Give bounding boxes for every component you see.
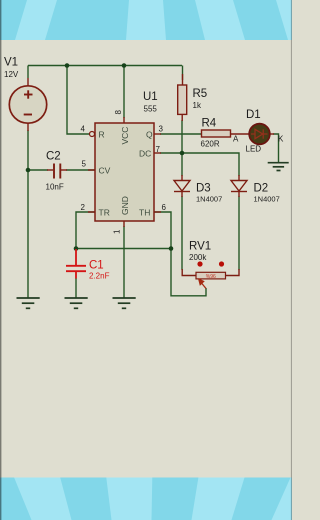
pin stub TR(2) <box>88 211 95 213</box>
svg-text:U1: U1 <box>143 91 158 103</box>
svg-text:2.2nF: 2.2nF <box>89 272 110 281</box>
pin stub C2 left <box>47 169 53 171</box>
wire TR(2) pin down <box>76 212 95 249</box>
wire TR-TH row <box>76 248 171 250</box>
voltage source V1 <box>9 86 46 123</box>
svg-text:D1: D1 <box>246 109 261 121</box>
maroon pin stubs <box>28 74 274 276</box>
wire Q(3) to R4 <box>160 133 202 135</box>
pin stub GND(1) <box>123 221 125 227</box>
svg-text:8: 8 <box>114 110 123 115</box>
svg-text:Q: Q <box>146 130 153 140</box>
svg-text:1N4007: 1N4007 <box>196 195 222 204</box>
pin stub LED cathode <box>270 133 274 135</box>
svg-text:1: 1 <box>113 229 122 234</box>
wire rail to VCC(8) pin <box>123 66 125 119</box>
ground U1 GND pin <box>113 298 136 308</box>
junction dots <box>26 63 185 251</box>
svg-text:1k: 1k <box>193 101 202 110</box>
potentiometer RV1 body <box>196 272 226 280</box>
svg-text:555: 555 <box>144 105 158 114</box>
svg-text:TR: TR <box>99 208 110 218</box>
node DC-D3 junction <box>180 151 185 156</box>
node rail-R4pin junction <box>65 63 70 68</box>
svg-text:12V: 12V <box>4 70 19 79</box>
wire rail to R(4) pin <box>67 66 90 135</box>
wire C2 left to V1 rail <box>28 169 48 171</box>
svg-text:D3: D3 <box>196 183 211 195</box>
ground C1 <box>65 298 88 308</box>
wire TH(6) pin down <box>154 212 171 249</box>
capacitor C2 <box>54 164 60 179</box>
op-amp U1 555 body <box>90 123 155 221</box>
wire D3 bottom to pot left <box>181 196 183 270</box>
wire GND(1) pin to ground <box>123 226 125 298</box>
wire R5 bottom spine to D3 top <box>181 120 183 176</box>
svg-text:RV1: RV1 <box>189 241 211 253</box>
svg-text:R: R <box>99 130 105 140</box>
pin stub VCC(8) <box>123 117 125 123</box>
top banner rays <box>15 0 292 40</box>
svg-text:K: K <box>278 135 284 144</box>
capacitor C1 (highlighted red) <box>66 249 86 279</box>
wire wiper loop <box>171 249 206 296</box>
ground LED <box>268 163 289 171</box>
pin stub V1 bottom <box>27 124 29 132</box>
svg-text:5: 5 <box>82 160 87 169</box>
LED D1 <box>249 124 270 145</box>
pin stub Q(3) <box>154 133 161 135</box>
svg-text:620R: 620R <box>201 140 220 149</box>
node TH-wiper junction <box>169 246 174 251</box>
pin stub R5 bottom <box>181 114 183 121</box>
svg-text:2: 2 <box>81 203 86 212</box>
svg-text:DC: DC <box>139 149 151 159</box>
bottom banner base <box>0 478 292 520</box>
pin stub pot left <box>182 269 196 276</box>
svg-text:10nF: 10nF <box>46 183 64 192</box>
pin stub D3 top <box>181 175 183 181</box>
pin stub D2 top <box>238 175 240 181</box>
svg-text:R4: R4 <box>202 118 217 130</box>
diode D3 <box>174 181 190 192</box>
svg-text:%96: %96 <box>206 274 216 280</box>
pin stub pot right <box>226 269 240 276</box>
pin stub V1 top <box>27 78 29 86</box>
svg-text:3: 3 <box>159 125 164 134</box>
wire LED K to ground <box>273 134 279 162</box>
svg-text:VCC: VCC <box>120 127 130 145</box>
svg-text:D2: D2 <box>254 183 269 195</box>
svg-text:LED: LED <box>246 145 262 154</box>
wire VCC top rail <box>28 65 182 67</box>
svg-text:1N4007: 1N4007 <box>254 195 280 204</box>
ground V1 <box>17 298 40 308</box>
node TR-C1 junction <box>74 246 79 251</box>
pin bubble R <box>90 132 95 137</box>
svg-text:TH: TH <box>139 208 150 218</box>
pin stub D3 bottom <box>181 192 183 198</box>
svg-text:4: 4 <box>81 125 86 134</box>
svg-text:R5: R5 <box>193 88 208 100</box>
svg-text:GND: GND <box>120 196 130 215</box>
svg-text:7: 7 <box>156 145 161 154</box>
svg-text:CV: CV <box>99 166 111 176</box>
wire V1 top stub (green part) <box>27 66 29 79</box>
node C2 tap junction <box>26 168 31 173</box>
pin stub TH(6) <box>154 211 161 213</box>
wire D2 bottom to pot right <box>238 196 240 270</box>
left screen edge shading <box>0 0 1 520</box>
node rail-VCC junction <box>122 63 127 68</box>
top banner base <box>0 0 292 40</box>
diode D2 <box>231 181 247 192</box>
wire V1 bottom to ground <box>27 130 29 298</box>
right screen edge shading <box>291 0 292 520</box>
pin stub CV(5) <box>88 169 95 171</box>
pin stub D2 bottom <box>238 192 240 198</box>
bottom banner rays <box>14 478 292 520</box>
wire R4 to LED anode <box>231 133 250 135</box>
pin numbers <box>81 110 167 235</box>
svg-text:C1: C1 <box>89 260 104 272</box>
pin names inside chip <box>99 127 154 218</box>
pin stub DC(7) <box>154 152 161 154</box>
RV1 increment buttons <box>197 261 224 266</box>
wire rail corner down to R5 top <box>182 66 184 81</box>
wire C2 right to CV(5) pin <box>66 169 95 171</box>
resistor R5 <box>178 85 187 114</box>
pin stub R5 top <box>182 74 184 85</box>
svg-text:A: A <box>233 135 239 144</box>
resistor R4 <box>202 130 231 137</box>
svg-text:C2: C2 <box>46 151 61 163</box>
svg-text:200k: 200k <box>189 253 207 262</box>
wire DC(7) to D2 corner <box>160 153 239 176</box>
pin stub C2 right <box>61 169 67 171</box>
RV1 wiper arrow <box>199 279 206 288</box>
wire C1 bottom to ground <box>75 278 77 298</box>
svg-text:V1: V1 <box>4 57 18 69</box>
svg-text:6: 6 <box>162 203 167 212</box>
